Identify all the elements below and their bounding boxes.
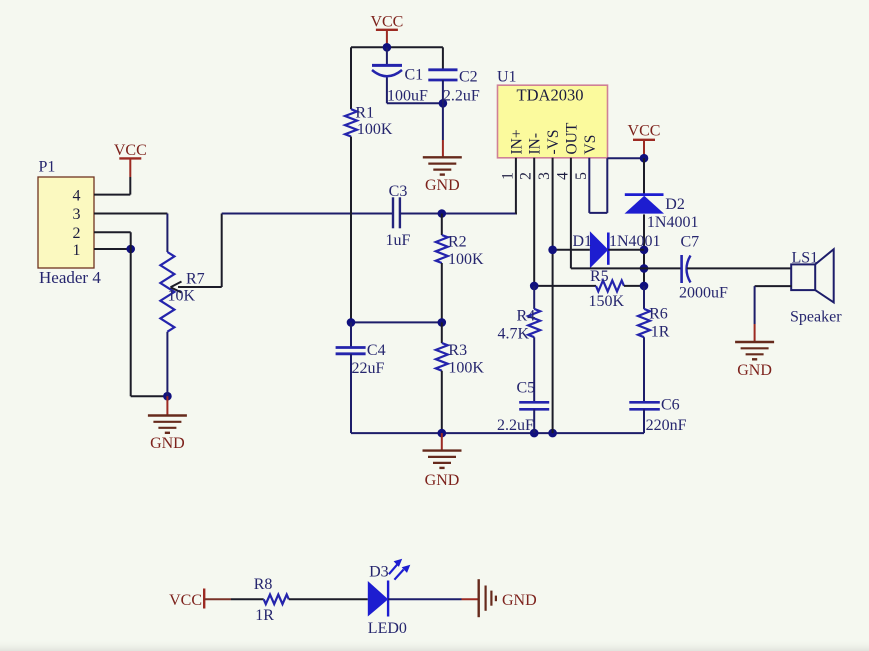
node R2/R3 junction	[438, 318, 447, 327]
svg-text:4: 4	[73, 188, 81, 205]
potentiometer R7	[160, 214, 221, 397]
wire OUT to C7	[571, 267, 682, 269]
svg-text:U1: U1	[497, 69, 517, 86]
svg-text:IN-: IN-	[527, 133, 544, 155]
diode D1 1N4001	[553, 231, 661, 268]
svg-text:1: 1	[73, 242, 81, 259]
node rail/C5 junction	[530, 429, 539, 438]
resistor R3	[436, 322, 485, 433]
pin 4 lead OUT	[570, 158, 572, 269]
svg-text:GND: GND	[425, 177, 460, 194]
svg-text:R5: R5	[590, 268, 609, 285]
svg-text:IN+: IN+	[509, 129, 526, 154]
svg-text:R4: R4	[517, 308, 536, 325]
svg-text:1N4001: 1N4001	[647, 214, 699, 231]
resistor R6 1R	[638, 286, 670, 402]
wire top rail	[351, 46, 443, 48]
svg-text:2000uF: 2000uF	[679, 285, 728, 302]
pin numbers U1	[500, 172, 590, 180]
svg-text:100uF: 100uF	[387, 87, 428, 104]
wire R8 to D3	[289, 598, 368, 600]
svg-text:2.2uF: 2.2uF	[443, 87, 480, 104]
wire bias node rail	[351, 321, 442, 323]
svg-text:2.2uF: 2.2uF	[497, 417, 534, 434]
svg-text:100K: 100K	[357, 121, 393, 138]
capacitor C1	[372, 47, 428, 104]
node R5/IN- junction	[530, 282, 539, 291]
svg-text:R7: R7	[186, 271, 205, 288]
ground GND (P1)	[148, 396, 187, 452]
ground GND (rail)	[423, 433, 462, 489]
svg-text:5: 5	[573, 172, 590, 180]
svg-text:TDA2030: TDA2030	[517, 86, 584, 105]
svg-text:C1: C1	[405, 67, 424, 84]
wire P1 pin1	[94, 248, 131, 250]
svg-text:VCC: VCC	[114, 142, 147, 159]
node C1/C2 junction	[439, 99, 448, 108]
node R1/C4 junction	[347, 318, 356, 327]
svg-text:100K: 100K	[448, 360, 484, 377]
svg-text:GND: GND	[150, 435, 185, 452]
svg-text:GND: GND	[737, 362, 772, 379]
node VCC/VS junction	[640, 154, 649, 163]
svg-text:22uF: 22uF	[352, 360, 385, 377]
wire P1 pin3	[94, 213, 167, 215]
node OUT junction	[640, 264, 649, 273]
svg-text:100K: 100K	[448, 251, 484, 268]
wire to ground junction	[131, 395, 168, 397]
power VCC (P1)	[114, 142, 147, 195]
svg-text:R3: R3	[448, 342, 467, 359]
node D1/-VS junction	[548, 246, 557, 255]
svg-text:-VS: -VS	[545, 130, 562, 155]
node C3/R2 junction	[438, 209, 447, 218]
svg-text:10K: 10K	[168, 288, 196, 305]
power VCC (U1)	[628, 123, 661, 159]
LED D3	[368, 559, 411, 637]
svg-text:P1: P1	[39, 159, 56, 176]
svg-text:OUT: OUT	[563, 122, 580, 154]
svg-text:D3: D3	[369, 564, 389, 581]
svg-text:C7: C7	[681, 234, 700, 251]
capacitor C7 2000uF	[679, 234, 728, 302]
node rail/-VS junction	[548, 429, 557, 438]
wire input line to C3	[222, 213, 393, 215]
svg-text:R8: R8	[254, 576, 273, 593]
wire VS to VCC	[607, 157, 644, 159]
svg-text:3: 3	[536, 172, 553, 180]
svg-text:C3: C3	[389, 183, 408, 200]
wire C1-C2 bottom	[387, 102, 443, 104]
node D1 cathode junction	[640, 246, 649, 255]
wire VCC to R8	[231, 598, 264, 600]
svg-text:C4: C4	[367, 342, 386, 359]
svg-text:1R: 1R	[651, 324, 670, 341]
diode D2 1N4001	[625, 158, 699, 231]
svg-text:1R: 1R	[255, 607, 274, 624]
node pin1/pin2 junction	[126, 245, 135, 254]
svg-text:GND: GND	[502, 592, 537, 609]
svg-text:150K: 150K	[589, 293, 625, 310]
resistor R8 1R	[254, 576, 289, 624]
svg-text:1: 1	[500, 172, 517, 180]
svg-text:C6: C6	[661, 397, 680, 414]
power VCC (top)	[370, 14, 403, 48]
svg-text:3: 3	[73, 206, 81, 223]
capacitor C2	[428, 47, 480, 104]
wire C3 to IN+	[400, 213, 516, 215]
pin 3 lead -VS	[552, 158, 554, 433]
wire R1 bottom to bias node	[350, 137, 352, 323]
resistor R2	[436, 214, 484, 323]
svg-text:Speaker: Speaker	[790, 309, 842, 326]
svg-text:D1: D1	[573, 233, 593, 250]
pin 5 lead VS hook	[588, 158, 590, 213]
wire D3 to GND	[388, 598, 461, 600]
connector P1	[38, 159, 101, 288]
svg-text:D2: D2	[665, 196, 685, 213]
svg-text:1uF: 1uF	[386, 232, 411, 249]
op-amp U1 TDA2030	[497, 69, 608, 158]
svg-text:VCC: VCC	[370, 14, 403, 31]
svg-text:VCC: VCC	[628, 123, 661, 140]
ground GND (LED, rotated)	[479, 579, 537, 617]
wire C7 to speaker	[687, 267, 792, 269]
svg-text:2: 2	[518, 172, 535, 180]
svg-text:R1: R1	[355, 105, 374, 122]
svg-text:Header 4: Header 4	[39, 268, 101, 287]
svg-text:C5: C5	[517, 380, 536, 397]
node R5/R6 junction	[640, 282, 649, 291]
svg-text:4.7K: 4.7K	[498, 326, 530, 343]
svg-text:LS1: LS1	[792, 250, 819, 267]
wire P1 pin4 to VCC	[94, 194, 130, 196]
svg-text:R2: R2	[448, 234, 467, 251]
svg-text:VS: VS	[582, 135, 599, 155]
pin 1 lead IN+	[515, 158, 517, 214]
pin 2 lead IN-	[533, 158, 535, 286]
ground GND (C2)	[423, 103, 462, 194]
wire wiper jog up	[221, 214, 223, 288]
svg-text:GND: GND	[425, 472, 460, 489]
speaker LS1	[790, 249, 842, 325]
power VCC (LED circuit)	[169, 589, 231, 610]
svg-text:C2: C2	[459, 69, 478, 86]
node P1 ground junction	[163, 392, 172, 401]
wire D2 anode down	[643, 214, 645, 286]
capacitor C3	[386, 183, 411, 249]
svg-text:220nF: 220nF	[646, 417, 687, 434]
node rail/GND junction	[438, 429, 447, 438]
svg-text:R6: R6	[649, 306, 668, 323]
svg-text:LED0: LED0	[368, 620, 407, 637]
wire P1 pin2	[94, 231, 131, 233]
svg-text:4: 4	[554, 172, 571, 180]
svg-text:1N4001: 1N4001	[609, 233, 661, 250]
pin names U1	[509, 122, 599, 154]
capacitor C6	[629, 397, 686, 435]
wire speaker bottom to GND	[755, 285, 792, 287]
capacitor C5	[497, 380, 549, 435]
capacitor C4	[336, 322, 386, 433]
svg-text:2: 2	[73, 225, 81, 242]
ground GND (speaker)	[735, 324, 774, 379]
svg-text:VCC: VCC	[169, 592, 202, 609]
resistor R4 4.7K	[498, 286, 541, 402]
resistor R1	[345, 47, 393, 138]
wire pin2 down to ground	[130, 232, 132, 396]
node VCC top junction	[383, 43, 392, 52]
resistor R5 150K	[534, 268, 644, 310]
wire bottom ground rail	[351, 432, 644, 434]
